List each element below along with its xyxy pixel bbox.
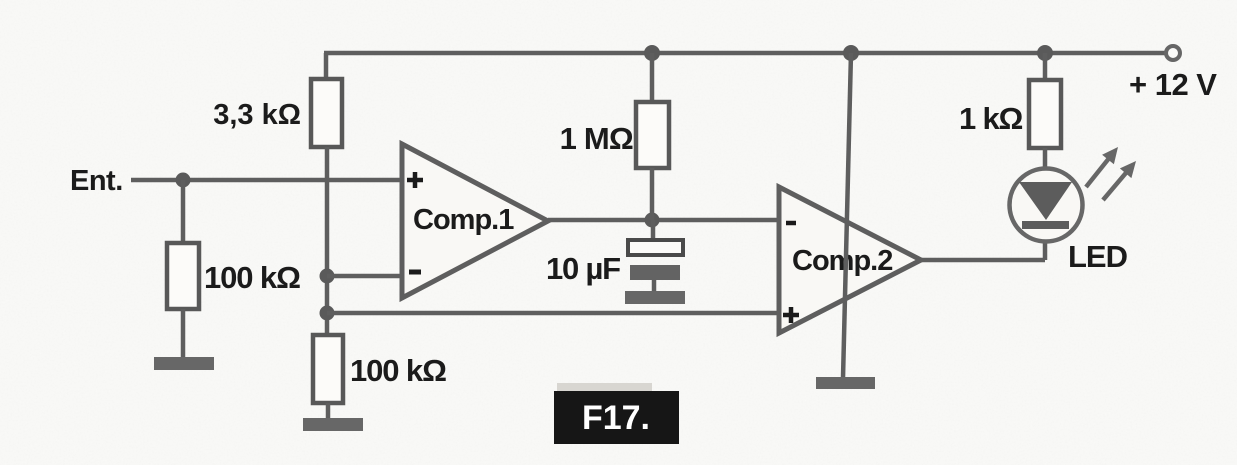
svg-text:100 kΩ: 100 kΩ: [350, 353, 446, 388]
resistor 1 kOhm: [1029, 80, 1061, 148]
node rail 1k: [1037, 45, 1053, 61]
resistor 3,3 kOhm: [311, 79, 342, 147]
svg-text:10 µF: 10 µF: [546, 251, 620, 286]
LED circle: [1010, 169, 1083, 242]
ground left: [154, 357, 214, 370]
ground comp2: [816, 377, 875, 389]
capacitor 10uF plate top: [628, 240, 683, 255]
svg-text:LED: LED: [1068, 239, 1128, 274]
wire comp2 power: [843, 53, 851, 378]
svg-text:1 MΩ: 1 MΩ: [560, 121, 633, 156]
wire comp1 output: [548, 218, 781, 223]
wire 1k top: [1043, 53, 1048, 80]
ground lower: [303, 418, 363, 431]
terminal +12V: [1166, 46, 1180, 60]
svg-text:3,3 kΩ: 3,3 kΩ: [213, 99, 301, 131]
node input junction: [176, 173, 191, 188]
svg-text:Comp.2: Comp.2: [792, 245, 892, 277]
resistor 100 kOhm left: [167, 243, 199, 309]
scan smudge above figure label: [557, 383, 652, 392]
svg-text:+ 12 V: + 12 V: [1129, 67, 1217, 102]
node output junction: [645, 213, 660, 228]
resistor 1 MOhm: [636, 102, 669, 168]
wire Ent. input line: [131, 178, 404, 183]
wire 1M top: [650, 53, 655, 102]
LED cathode bar: [1022, 221, 1069, 229]
ground capacitor: [625, 291, 685, 304]
op-amp Comp.1: [402, 144, 548, 298]
wire top +12V rail: [324, 51, 1166, 56]
wire LED lead: [1043, 148, 1048, 260]
node divider upper: [320, 269, 335, 284]
resistor 100 kOhm lower: [313, 335, 343, 403]
node rail power: [843, 45, 859, 61]
figure label box F17.: [554, 391, 679, 444]
wire 100k branch: [181, 180, 186, 243]
wire to ground lower: [326, 403, 331, 420]
capacitor 10uF top lead: [651, 220, 656, 240]
pin + Comp.2: [783, 307, 799, 323]
node divider lower: [320, 306, 335, 321]
wire cap to ground: [652, 280, 657, 292]
pin + Comp.1: [407, 172, 423, 188]
svg-text:F17.: F17.: [582, 399, 650, 437]
wire divider vertical lower: [325, 147, 330, 336]
svg-text:100 kΩ: 100 kΩ: [204, 260, 300, 295]
op-amp Comp.2: [779, 187, 921, 333]
capacitor 10uF plate bottom: [630, 265, 680, 280]
wire to ground left: [181, 309, 186, 358]
pin - Comp.2: [786, 221, 796, 226]
LED light arrows: [1086, 147, 1136, 200]
LED anode triangle: [1019, 182, 1072, 220]
pin - Comp.1: [409, 270, 421, 275]
svg-text:Ent.: Ent.: [70, 165, 123, 197]
wire comp1 minus input: [327, 274, 404, 279]
node rail 1M: [644, 45, 660, 61]
wire comp2 output: [921, 258, 1045, 263]
svg-text:Comp.1: Comp.1: [413, 204, 514, 236]
wire divider vertical upper: [324, 53, 329, 79]
wire comp2 plus input: [327, 311, 781, 316]
svg-text:1 kΩ: 1 kΩ: [959, 101, 1022, 136]
wire 1M bottom: [650, 168, 655, 220]
